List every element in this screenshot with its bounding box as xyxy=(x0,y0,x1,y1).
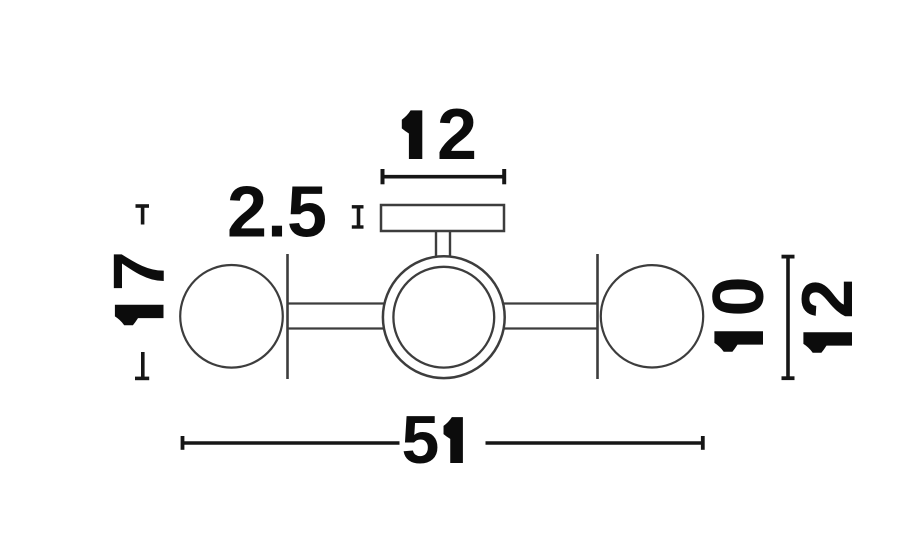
left disc line xyxy=(286,254,289,379)
dimension line 51 (bottom) xyxy=(183,436,703,450)
center ring inner circle xyxy=(393,267,494,368)
dimension tick I for 2.5 xyxy=(352,207,364,227)
canopy plate (ceiling mount) xyxy=(381,205,504,231)
wire: left connecting bar xyxy=(287,304,598,329)
dimension line 12 (top, above canopy) xyxy=(383,169,505,184)
left globe xyxy=(180,265,283,368)
dimension label 12 (top) xyxy=(402,95,477,175)
svg-text:2: 2 xyxy=(788,279,868,319)
svg-text:2: 2 xyxy=(437,95,477,175)
dimension label 51 (bottom) xyxy=(402,402,463,478)
right globe xyxy=(601,265,703,367)
dimension line 12 (right vertical) xyxy=(782,257,795,379)
dimension label 12 (right, rotated) xyxy=(788,279,868,353)
dimension label 10 (right, rotated) xyxy=(699,276,779,351)
svg-text:2.5: 2.5 xyxy=(227,173,327,253)
right disc line xyxy=(596,254,599,379)
center ring outer circle xyxy=(383,256,505,378)
svg-text:7: 7 xyxy=(100,251,180,291)
dimension label 17 (left, rotated) xyxy=(100,251,180,325)
stem between canopy and ring xyxy=(436,231,450,260)
svg-text:0: 0 xyxy=(699,276,779,316)
svg-text:5: 5 xyxy=(402,402,440,478)
dimension ticks 17 (left vertical dimension) xyxy=(135,206,149,378)
